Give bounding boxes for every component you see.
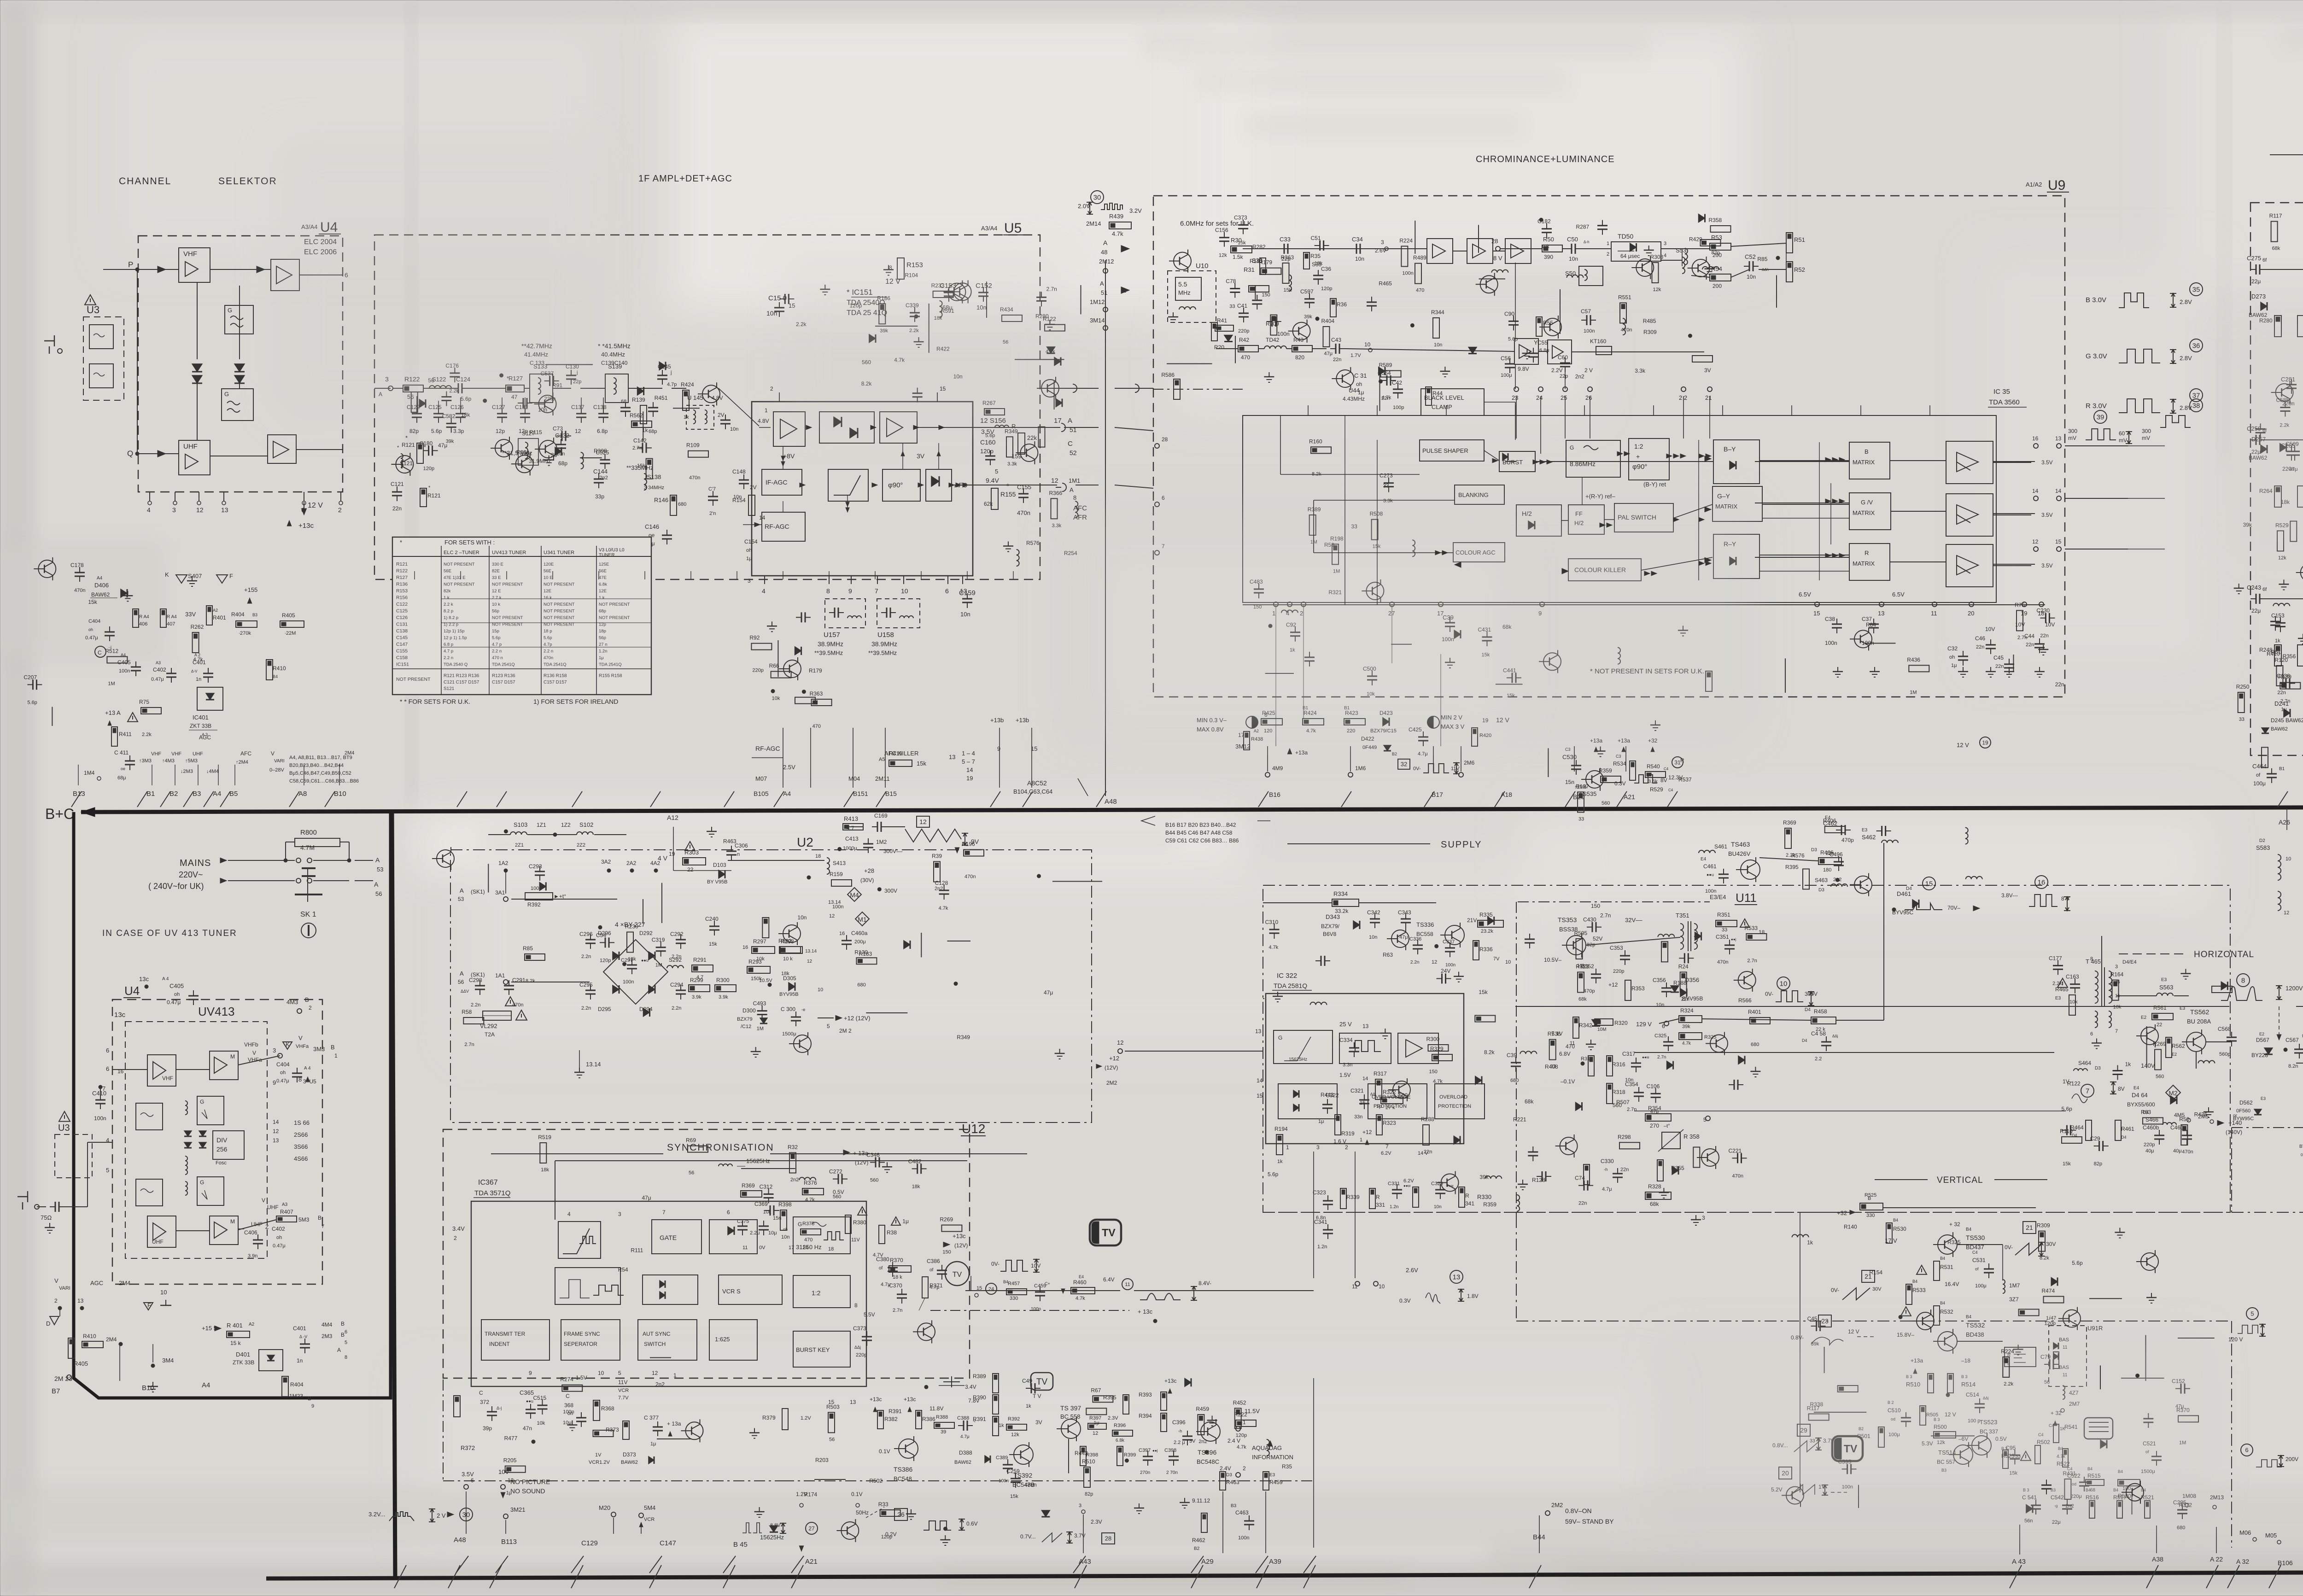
svg-text:R404: R404 — [231, 611, 245, 618]
coil — [1702, 267, 1719, 269]
svg-text:2M3: 2M3 — [321, 1333, 333, 1339]
svg-text:R146: R146 — [654, 497, 668, 503]
svg-text:R262: R262 — [191, 624, 204, 630]
svg-text:9: 9 — [311, 1403, 314, 1409]
svg-text:R394: R394 — [1139, 1413, 1152, 1419]
block 1625 — [709, 1320, 757, 1360]
node — [1435, 944, 1438, 948]
svg-text:70V–: 70V– — [1947, 905, 1960, 911]
svg-text:TV: TV — [1102, 1227, 1116, 1239]
resistor R458 — [1332, 544, 1339, 564]
svg-text:2.3V: 2.3V — [1091, 1519, 1102, 1525]
svg-text:1M4: 1M4 — [84, 770, 95, 776]
svg-text:2M11: 2M11 — [875, 775, 890, 782]
svg-text:VHF: VHF — [183, 250, 197, 258]
capacitors C298 C291 — [475, 985, 485, 987]
svg-text:12k: 12k — [1219, 253, 1227, 258]
capacitor C539 — [1834, 861, 1844, 863]
TS386 — [899, 1439, 918, 1458]
svg-text:6.8 p: 6.8 p — [444, 642, 453, 647]
svg-text:IC401: IC401 — [193, 714, 209, 721]
svg-text:R439: R439 — [1109, 213, 1123, 220]
svg-text:9: 9 — [848, 587, 852, 595]
resistor R428 — [2271, 222, 2278, 242]
svg-text:(12V): (12V) — [954, 1242, 968, 1249]
crystal KT160 — [1596, 346, 1612, 355]
svg-text:0.1V: 0.1V — [879, 1448, 890, 1455]
svg-text:AGC: AGC — [199, 734, 211, 741]
wire — [1865, 643, 1896, 644]
svg-text:E3: E3 — [2055, 996, 2061, 1001]
svg-text:22n: 22n — [2055, 681, 2064, 688]
svg-text:E4: E4 — [2133, 1086, 2139, 1091]
diode — [2100, 1440, 2107, 1448]
svg-text:D406: D406 — [94, 582, 109, 589]
resistor R451 — [780, 947, 801, 953]
svg-text:100n: 100n — [1031, 1307, 1041, 1312]
svg-text:56E: 56E — [544, 569, 551, 574]
svg-text:39k: 39k — [1304, 314, 1312, 320]
svg-text:100n: 100n — [119, 668, 130, 674]
svg-text:C121 C157 D157: C121 C157 D157 — [444, 680, 479, 685]
diode — [2221, 982, 2227, 990]
resistor R362 — [1692, 356, 1713, 362]
svg-text:+13c: +13c — [1164, 1378, 1176, 1384]
T351 transformer — [1680, 924, 1683, 949]
svg-text:12E: 12E — [544, 589, 551, 594]
marker C circle — [95, 646, 106, 657]
transistor — [794, 1035, 811, 1052]
svg-text:22n: 22n — [2277, 690, 2285, 696]
svg-text:100n: 100n — [1445, 963, 1455, 968]
svg-text:R419: R419 — [889, 750, 902, 757]
svg-text:R309: R309 — [1643, 329, 1657, 335]
capacitor C306 — [2177, 1509, 2187, 1511]
svg-text:VERTICAL: VERTICAL — [1937, 1175, 1983, 1185]
node — [768, 983, 772, 987]
svg-text:R532: R532 — [1940, 1309, 1953, 1315]
svg-text:A4: A4 — [213, 790, 221, 798]
svg-text:K: K — [165, 571, 169, 578]
wire: bottom schematic border — [266, 1571, 2303, 1578]
node — [623, 962, 626, 966]
svg-text:368: 368 — [564, 1402, 573, 1409]
svg-text:1μ: 1μ — [1951, 663, 1957, 668]
svg-text:VCR1.2V: VCR1.2V — [589, 1460, 610, 1465]
resistor R424 — [795, 697, 815, 704]
svg-text:R128: R128 — [1532, 1177, 1545, 1183]
svg-text:R407: R407 — [280, 1209, 293, 1215]
svg-text:1.7V: 1.7V — [1350, 353, 1361, 358]
svg-text:20: 20 — [1968, 610, 1974, 617]
svg-text:10M: 10M — [1597, 1027, 1606, 1032]
svg-text:2M12: 2M12 — [1099, 258, 1114, 265]
svg-text:E2: E2 — [2141, 1015, 2147, 1020]
svg-text:100n: 100n — [1825, 640, 1837, 646]
svg-text:R 3.0V: R 3.0V — [2086, 402, 2107, 410]
node — [1410, 323, 1414, 327]
wire — [1479, 279, 1505, 280]
capacitor input stage 1 — [2256, 264, 2257, 275]
diode — [1695, 932, 1701, 941]
capacitor C358 — [912, 392, 923, 394]
chroma IC outer box — [1243, 415, 1996, 602]
svg-text:10n: 10n — [1656, 1002, 1664, 1008]
svg-text:A8C52: A8C52 — [1027, 779, 1047, 787]
EW mid rail — [2232, 1212, 2303, 1213]
T465 transformer — [2095, 971, 2098, 1003]
capacitor C193 — [1734, 1080, 1735, 1090]
transistor — [1544, 318, 1561, 336]
svg-text:MHz: MHz — [1178, 289, 1191, 296]
svg-text:A3: A3 — [156, 661, 161, 665]
svg-text:C36: C36 — [1321, 266, 1331, 272]
coil — [1310, 1002, 1327, 1005]
wire supply rails bottom — [1263, 1212, 2232, 1213]
diode — [1699, 214, 1705, 222]
TV glyph dark1 — [1090, 1220, 1121, 1245]
svg-text:A: A — [337, 1347, 341, 1353]
UV413 G filter2 — [197, 1177, 224, 1205]
IC367 outline — [471, 1201, 866, 1386]
resistor R357 — [2003, 1357, 2009, 1377]
module UV413 U4 dashed outline — [112, 1000, 322, 1284]
diode — [1630, 243, 1637, 251]
svg-text:300: 300 — [2068, 428, 2077, 434]
svg-text:A: A — [375, 856, 380, 864]
R406 R407 — [133, 609, 139, 627]
svg-text:R392: R392 — [527, 901, 541, 908]
svg-text:B: B — [341, 1321, 345, 1327]
svg-text:1M: 1M — [757, 1026, 764, 1032]
capacitor C248 — [939, 890, 949, 891]
resistor R439 — [1109, 222, 1131, 229]
resistor R193 — [562, 1385, 582, 1391]
svg-text:C153: C153 — [2271, 612, 2285, 619]
R457 C459 R460 — [1006, 1289, 1027, 1295]
svg-text:A 4: A 4 — [162, 976, 169, 982]
svg-text:4.7k: 4.7k — [805, 1197, 815, 1203]
svg-text:256: 256 — [216, 1146, 228, 1153]
svg-text:4S66: 4S66 — [294, 1155, 308, 1162]
svg-text:+13b: +13b — [990, 717, 1004, 724]
svg-text:140V: 140V — [2141, 1062, 2155, 1069]
svg-text:C43: C43 — [1331, 337, 1341, 343]
svg-text:R349: R349 — [1005, 428, 1018, 434]
capacitor C593 — [838, 1174, 839, 1184]
waveform 38 — [2190, 399, 2203, 412]
UV413 UHF amp — [147, 1216, 176, 1247]
svg-text:35: 35 — [2192, 286, 2200, 293]
svg-text:–t°: –t° — [1664, 1123, 1670, 1129]
svg-text:372: 372 — [480, 1399, 489, 1405]
IC151 block outline — [752, 402, 973, 576]
resistor R130 — [1428, 1045, 1449, 1051]
svg-text:C230: C230 — [2036, 608, 2050, 614]
svg-text:∙270k: ∙270k — [239, 631, 251, 636]
svg-text:470n: 470n — [1621, 327, 1632, 333]
svg-text:13: 13 — [1362, 1023, 1369, 1029]
ground — [754, 1428, 755, 1433]
transistor — [1393, 1081, 1410, 1099]
svg-text:5.5: 5.5 — [1178, 281, 1187, 288]
wire — [546, 364, 593, 365]
capacitor C314 — [764, 1193, 774, 1195]
svg-text:2.2n: 2.2n — [672, 1006, 681, 1011]
IC151 demod diode blocks — [819, 412, 874, 443]
UV413 G filter — [197, 1096, 224, 1125]
svg-text:R363: R363 — [1281, 254, 1294, 261]
svg-text:5M3: 5M3 — [298, 1216, 310, 1223]
svg-text:( 240V~for UK): ( 240V~for UK) — [148, 882, 204, 891]
coil — [1017, 550, 1019, 566]
resistor R296 — [1838, 1386, 1858, 1392]
svg-text:D4: D4 — [1805, 1007, 1811, 1012]
wire — [929, 304, 929, 353]
svg-text:12: 12 — [1093, 1431, 1098, 1436]
svg-text:+13c: +13c — [953, 1233, 966, 1239]
IC151 phi90 block — [883, 469, 920, 501]
svg-text:5: 5 — [995, 468, 998, 475]
svg-text:R461: R461 — [2121, 1126, 2134, 1132]
svg-text:B6V8: B6V8 — [1323, 931, 1337, 937]
capacitor C297 — [627, 965, 637, 966]
svg-text:8: 8 — [2241, 976, 2245, 984]
wire U4 interior — [103, 269, 179, 270]
svg-text:U3: U3 — [87, 304, 99, 316]
svg-text:10: 10 — [818, 987, 823, 993]
C342 — [1370, 918, 1380, 920]
svg-text:R319: R319 — [1341, 1130, 1355, 1137]
svg-text:37: 37 — [2192, 392, 2200, 399]
svg-text:1μ: 1μ — [1318, 1119, 1324, 1124]
svg-text:oh: oh — [280, 1070, 286, 1076]
svg-text:E4: E4 — [1079, 1274, 1084, 1279]
block AUT SYNC SWITCH — [638, 1320, 697, 1360]
svg-text:15k: 15k — [637, 463, 645, 468]
wire — [1814, 1412, 1866, 1413]
svg-text:R335: R335 — [1479, 912, 1493, 918]
resistor R67 — [107, 657, 127, 663]
svg-text:C159: C159 — [959, 589, 976, 597]
svg-text:B: B — [308, 1395, 311, 1402]
svg-text:3.4V: 3.4V — [452, 1225, 465, 1232]
svg-text:R35: R35 — [1310, 253, 1321, 259]
svg-text:18p: 18p — [599, 629, 606, 634]
svg-text:18: 18 — [815, 854, 821, 859]
block GATE — [652, 1220, 701, 1254]
svg-text:INFORMATION: INFORMATION — [1252, 1454, 1293, 1461]
svg-text:3.2V: 3.2V — [1129, 207, 1142, 214]
UV413 M amp — [210, 1051, 238, 1080]
wire — [1235, 336, 1236, 363]
svg-text:C386: C386 — [927, 1258, 940, 1264]
node — [1037, 874, 1041, 878]
transistor — [948, 283, 965, 301]
svg-text:25: 25 — [1561, 394, 1567, 401]
R351 C351 — [1716, 920, 1737, 927]
svg-text:12: 12 — [807, 959, 812, 964]
svg-text:*: * — [397, 445, 399, 450]
svg-text:R42: R42 — [1239, 337, 1249, 343]
svg-text:A12: A12 — [667, 814, 678, 821]
svg-text:1.5V: 1.5V — [576, 1374, 587, 1381]
svg-text:7: 7 — [2115, 1029, 2118, 1034]
ground — [772, 621, 772, 626]
svg-text:2.2n: 2.2n — [471, 1002, 480, 1008]
svg-text:C402: C402 — [272, 1226, 285, 1232]
svg-text:11.8V: 11.8V — [929, 1405, 943, 1412]
ground — [711, 827, 712, 831]
svg-text:NOT PRESENT: NOT PRESENT — [444, 582, 475, 587]
svg-text:Q: Q — [127, 449, 133, 458]
diode — [869, 334, 876, 343]
svg-text:R123 R136: R123 R136 — [492, 673, 515, 678]
wave 15 — [1923, 877, 1935, 890]
svg-text:1M23: 1M23 — [289, 1393, 303, 1399]
svg-text:BC 558: BC 558 — [1060, 1413, 1080, 1420]
svg-text:22n: 22n — [1976, 644, 1984, 650]
svg-text:3.3n: 3.3n — [1343, 1062, 1352, 1068]
diode — [1592, 1020, 1600, 1026]
resistor R420 — [646, 459, 653, 479]
svg-text:0V-: 0V- — [2005, 1244, 2013, 1251]
wave 21b — [1862, 1270, 1875, 1282]
svg-text:**39.5MHz: **39.5MHz — [868, 649, 897, 656]
resistor R101 — [1283, 263, 1289, 283]
svg-text:A8: A8 — [298, 790, 307, 798]
diode D103 BYV95B — [719, 870, 725, 878]
resistor R489 — [1309, 515, 1316, 535]
svg-text:NO SOUND: NO SOUND — [510, 1487, 545, 1495]
svg-text:14: 14 — [2032, 488, 2039, 494]
svg-text:GATE: GATE — [660, 1234, 677, 1241]
svg-text:↓4M4: ↓4M4 — [206, 769, 219, 774]
svg-text:R300: R300 — [1426, 1036, 1440, 1042]
capacitor C89 — [1597, 225, 1607, 226]
resistor R587 — [2178, 1415, 2198, 1422]
svg-text:R457: R457 — [1008, 1281, 1020, 1286]
svg-text:UV413 TUNER: UV413 TUNER — [492, 550, 526, 555]
R336 — [1473, 941, 1479, 960]
ground — [1655, 720, 1656, 725]
svg-text:R443: R443 — [1321, 1092, 1334, 1098]
svg-text:C207: C207 — [23, 674, 37, 680]
transistor — [516, 455, 533, 473]
svg-text:BC548C: BC548C — [1197, 1458, 1219, 1465]
svg-text:1.5k: 1.5k — [1233, 254, 1244, 260]
capacitor C78 — [600, 459, 610, 461]
diode — [637, 387, 644, 395]
svg-text:of: of — [929, 1268, 934, 1273]
svg-text:2.2n: 2.2n — [581, 1006, 591, 1011]
capacitor C199 — [1684, 953, 1685, 963]
connector slash row — [71, 791, 82, 807]
svg-text:NOT PRESENT: NOT PRESENT — [396, 677, 431, 682]
block B-Y demod — [1713, 440, 1759, 484]
svg-text:U10: U10 — [1196, 262, 1209, 270]
svg-text:2: 2 — [1243, 1465, 1246, 1472]
resistor R548 — [2039, 1231, 2045, 1251]
svg-text:φ90°: φ90° — [888, 481, 903, 489]
capacitor C599 — [538, 1405, 548, 1406]
transistor — [918, 1323, 935, 1340]
svg-text:B3: B3 — [193, 790, 201, 798]
svg-text:7: 7 — [875, 587, 878, 595]
block FF H/2 — [1568, 505, 1604, 534]
wire — [1265, 673, 1294, 674]
svg-text:2.7n: 2.7n — [1627, 1107, 1637, 1112]
svg-text:1μ: 1μ — [2281, 707, 2286, 713]
svg-text:3Z7: 3Z7 — [2009, 1296, 2019, 1303]
svg-text:C356: C356 — [1653, 977, 1666, 983]
ground — [1527, 349, 1528, 353]
svg-text:R122: R122 — [396, 568, 408, 574]
svg-text:6.5V: 6.5V — [1892, 591, 1905, 598]
U11 ground — [1695, 1215, 1696, 1220]
svg-text:(30V): (30V) — [860, 877, 874, 883]
svg-text:/C12: /C12 — [741, 1024, 751, 1029]
svg-text:mV: mV — [2119, 437, 2127, 444]
svg-text:300V––: 300V–– — [883, 848, 903, 854]
node — [807, 876, 811, 879]
svg-text:62k: 62k — [984, 501, 993, 507]
capacitor C124 — [458, 383, 459, 393]
svg-text:470: 470 — [812, 724, 821, 729]
svg-text:15: 15 — [2055, 538, 2062, 545]
svg-text:R404: R404 — [1321, 318, 1335, 324]
svg-text:6: 6 — [106, 1047, 109, 1054]
wire — [1255, 285, 1256, 299]
svg-text:1: 1 — [673, 1372, 677, 1379]
svg-text:1000μ: 1000μ — [843, 846, 857, 851]
module supply dash-dot outline — [1263, 885, 2230, 1212]
frame: UV413 tuner section box — [74, 812, 391, 1398]
svg-text:oh: oh — [174, 992, 180, 997]
svg-text:21: 21 — [1705, 394, 1712, 401]
svg-text:M06: M06 — [2239, 1529, 2251, 1536]
resistor R361 — [141, 707, 161, 714]
svg-text:0.8V–ON: 0.8V–ON — [1565, 1507, 1592, 1514]
svg-text:R370: R370 — [890, 1257, 903, 1263]
svg-text:R401: R401 — [1748, 1009, 1761, 1015]
capacitor C92 — [917, 1163, 918, 1174]
resistor R122 — [403, 385, 423, 392]
wire — [1415, 221, 1415, 254]
resistor R545 — [1711, 226, 1731, 232]
svg-text:C396: C396 — [1172, 1419, 1186, 1426]
svg-text:4.7p: 4.7p — [544, 642, 552, 647]
diode — [1224, 335, 1233, 341]
coil — [2273, 603, 2290, 606]
coil — [1966, 877, 1982, 879]
svg-text:1M: 1M — [108, 681, 115, 687]
gap connector wires IF to chroma — [1040, 388, 1099, 389]
svg-text:22μ: 22μ — [2052, 1520, 2061, 1525]
svg-text:G: G — [1570, 444, 1574, 451]
svg-text:A2: A2 — [249, 1322, 255, 1327]
svg-text:120p: 120p — [600, 958, 611, 963]
svg-text:1Z1: 1Z1 — [537, 822, 546, 828]
capacitor C370 — [1304, 657, 1315, 658]
resistor R254 — [1809, 1414, 1829, 1421]
wire — [875, 326, 918, 327]
M2 diamond — [2166, 1085, 2180, 1100]
table FOR SETS WITH — [392, 537, 651, 695]
capacitor C325 — [1528, 1152, 1538, 1153]
svg-text:12p: 12p — [496, 428, 505, 434]
wire — [777, 640, 778, 677]
